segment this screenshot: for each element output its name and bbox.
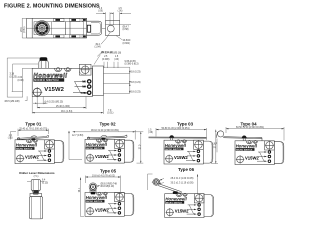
terminals top [54,19,87,38]
svg-text:49.2: 49.2 [95,44,100,46]
Type 03: simulated roller lever switch [148,121,218,164]
svg-text:(0.25): (0.25) [42,182,48,184]
small top dims [103,62,105,68]
svg-text:(1.94): (1.94) [95,47,101,49]
top view: switch body [27,18,102,38]
lever [17,135,49,139]
Type 02: long hinge lever switch [68,121,143,163]
svg-text:25.40 ±1.78 (1.000 ±0.070): 25.40 ±1.78 (1.000 ±0.070) [19,129,47,131]
svg-text:12.7 (0.50): 12.7 (0.50) [72,135,83,137]
svg-text:19.8 ±0.4 (0.78 ±0.02): 19.8 ±0.4 (0.78 ±0.02) [92,175,115,177]
svg-text:20.6: 20.6 [21,27,23,32]
svg-text:COM: COM [81,91,87,95]
svg-text:(.06): (.06) [118,10,123,12]
svg-text:(0.125): (0.125) [10,76,18,78]
Type 04: curled long lever switch [214,121,285,164]
svg-text:50.80 ±1.30 (2.000 ±0.051): 50.80 ±1.30 (2.000 ±0.051) [161,128,189,130]
svg-text:MICRO SWITCH: MICRO SWITCH [34,78,59,82]
svg-text:5.8 (0.23): 5.8 (0.23) [131,92,141,94]
svg-text:Type 03: Type 03 [177,121,194,126]
svg-text:Type 05: Type 05 [100,169,117,174]
left dims [6,58,8,97]
plunger [40,57,48,61]
svg-text:NO: NO [82,85,86,89]
svg-text:5.8 (0.23): 5.8 (0.23) [131,82,141,84]
leader to plunger dia [97,53,101,57]
svg-text:(.09): (.09) [98,10,103,12]
svg-text:Ø4.8 Ø(0.19): Ø4.8 Ø(0.19) [101,186,115,188]
svg-text:2.03: 2.03 [18,77,23,79]
svg-text:30.2 ±1.3 (1.19 ±0.05): 30.2 ±1.3 (1.19 ±0.05) [171,182,194,184]
svg-text:Type 01: Type 01 [25,121,42,126]
roller [31,180,40,191]
svg-text:27.0: 27.0 [139,144,141,149]
svg-text:6.4 (0.25) (Ø0.25): 6.4 (0.25) (Ø0.25) [45,102,64,104]
svg-text:Ø19.0 RØ0.748: Ø19.0 RØ0.748 [101,183,118,185]
end notch [87,25,90,32]
main front view: V15W2 switch [32,57,103,97]
Type 06: roller lever switch [148,167,214,218]
svg-text:Roller Lever Dimensions: Roller Lever Dimensions [19,171,55,175]
svg-text:5.8 (0.23): 5.8 (0.23) [131,72,141,74]
Type 01: hinge lever switch [8,121,64,163]
svg-text:(0.81): (0.81) [24,26,26,32]
mount hole bottom left [33,88,41,96]
svg-text:V15W2: V15W2 [44,87,64,93]
svg-text:39.1 (1.54): 39.1 (1.54) [61,111,72,113]
roller lever [153,179,160,186]
svg-text:25.4 ±1.3 (1.00 ±0.05): 25.4 ±1.3 (1.00 ±0.05) [171,178,194,180]
top cam holes [55,68,62,71]
svg-text:(.06): (.06) [148,132,153,134]
contact schematic [73,81,84,92]
terminals [81,80,91,95]
main view dimension lines [5,53,141,115]
svg-text:34.1: 34.1 [79,187,81,192]
svg-text:NC: NC [82,80,86,84]
leader top right [94,55,101,65]
dims [8,129,49,140]
top view: knurled plunger circle [34,21,49,36]
svg-text:Type 04: Type 04 [240,121,257,126]
svg-text:(7.1): (7.1) [34,176,39,178]
right terminal leaders [104,66,130,68]
svg-text:Type 06: Type 06 [178,167,195,172]
svg-text:Ø3.5 (Ø0.138): Ø3.5 (Ø0.138) [5,101,20,103]
svg-text:63.50 ±1.30 (2.500 ±0.051): 63.50 ±1.30 (2.500 ±0.051) [236,127,264,129]
end cap [87,21,102,35]
svg-text:(0.380-0.813): (0.380-0.813) [125,64,139,66]
svg-text:(0.58): (0.58) [123,29,129,31]
svg-text:(.05): (.05) [8,137,13,139]
svg-text:(0.662): (0.662) [123,43,131,45]
svg-text:(0.098): (0.098) [102,59,110,61]
end view: plunger housing [102,21,120,36]
terminal strip [93,66,104,96]
svg-text:(.06): (.06) [114,59,119,61]
body [32,68,92,96]
svg-text:16.8/20: 16.8/20 [123,40,131,42]
svg-text:(0.08): (0.08) [18,80,24,82]
svg-text:38.10 ±1.30 (1.500 ±0.051): 38.10 ±1.30 (1.500 ±0.051) [91,130,119,132]
svg-text:Type 02: Type 02 [99,121,116,126]
svg-text:Ø4.50-4.80 (Ø0.18): Ø4.50-4.80 (Ø0.18) [101,53,121,55]
svg-text:9.65-20.65: 9.65-20.65 [125,61,137,63]
roller lever dimensions figure [19,171,55,219]
svg-text:25.40 (1.000): 25.40 (1.000) [56,106,70,108]
svg-text:Ø14.7: Ø14.7 [123,26,130,28]
roller plunger [89,183,97,191]
top view dimension lines [21,8,131,57]
mount pad top right [79,64,91,75]
terminals bottom [54,35,64,38]
Type 05: roller plunger switch [79,169,134,217]
svg-text:3.18: 3.18 [10,74,15,76]
svg-text:FIGURE 2. MOUNTING DIMENSIONS: FIGURE 2. MOUNTING DIMENSIONS [4,4,100,10]
svg-text:(0.31): (0.31) [107,113,113,115]
top view body [27,18,87,38]
